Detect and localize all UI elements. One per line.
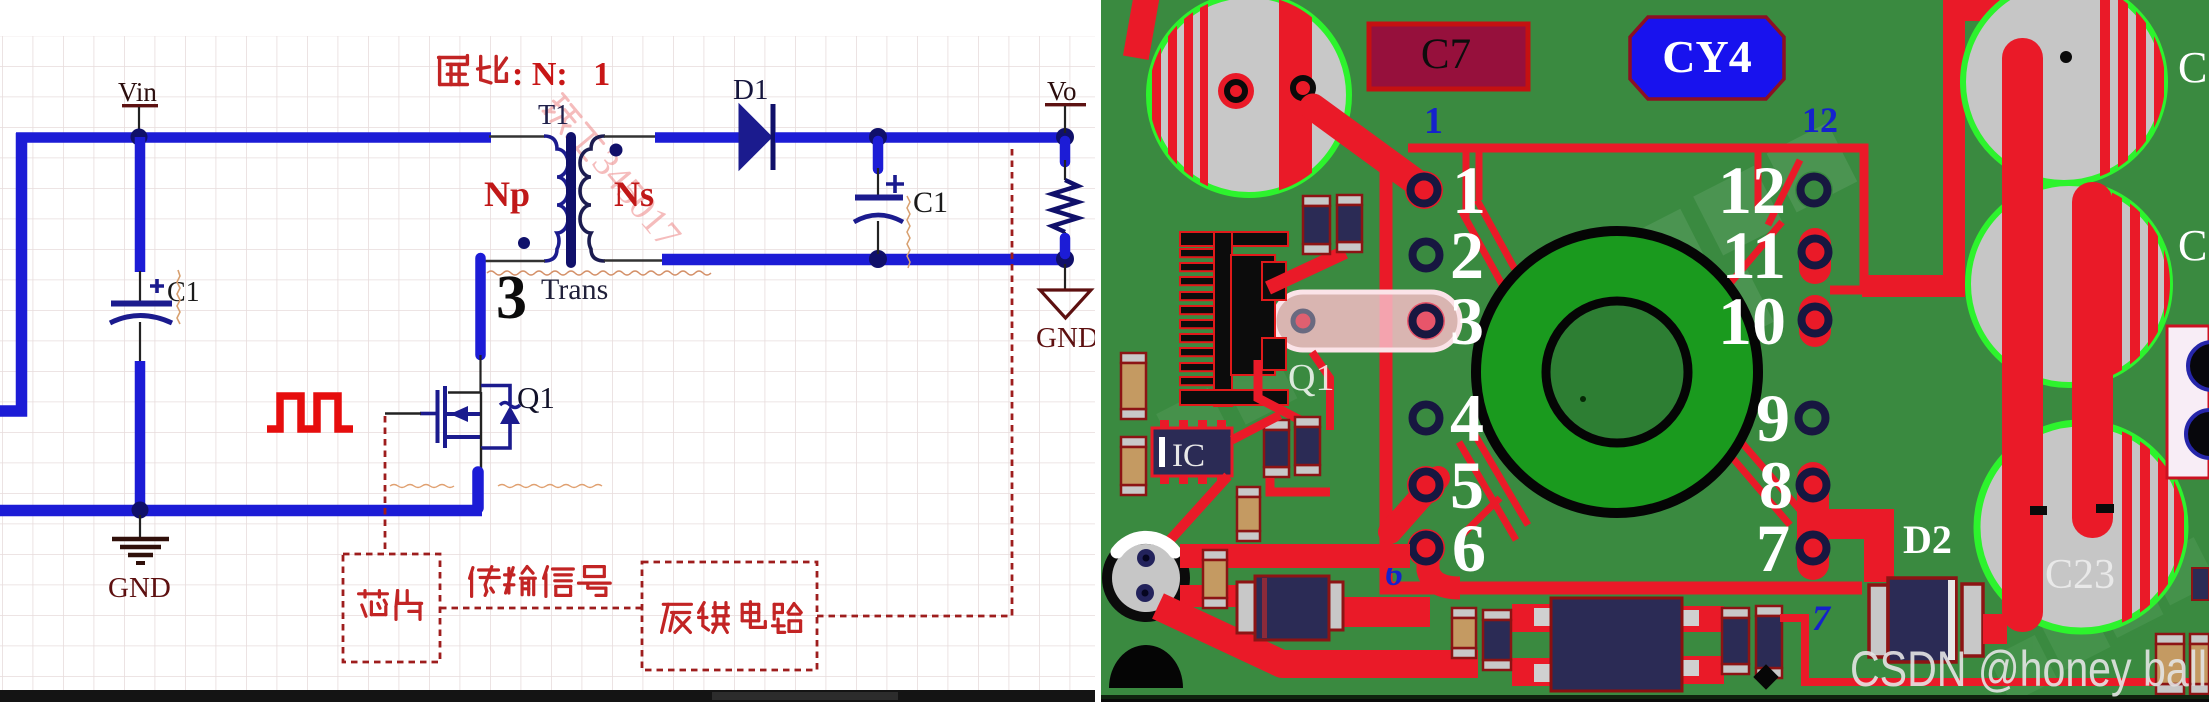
diode D1 xyxy=(733,74,773,170)
pad xyxy=(1293,78,1313,98)
component bottom-centre xyxy=(1512,598,1724,691)
net label Vo xyxy=(1045,76,1086,133)
trace L to top edge xyxy=(1862,10,2086,286)
node output cap bottom xyxy=(869,250,887,268)
pad pin5 xyxy=(1407,466,1445,504)
capacitor C1 input electrolytic xyxy=(110,270,200,362)
node output cap top xyxy=(869,128,887,146)
wire source to ground bus xyxy=(480,448,482,472)
pad pin3 xyxy=(1407,302,1445,340)
highlight pin3 xyxy=(1274,292,1460,350)
svg-text:Ns: Ns xyxy=(614,174,654,214)
box chip 芯片 xyxy=(343,554,440,662)
capacitor big right mid xyxy=(1968,183,2170,385)
net label Vin xyxy=(118,77,158,133)
label 传输信号 xyxy=(470,567,500,597)
PWM waveform symbol xyxy=(267,396,353,429)
svg-text:7: 7 xyxy=(1812,598,1832,638)
svg-text:IC: IC xyxy=(1172,438,1205,474)
bottom bar xyxy=(0,690,1101,702)
svg-text:C: C xyxy=(2178,221,2207,270)
svg-text:10: 10 xyxy=(1718,283,1786,359)
svg-text:1: 1 xyxy=(1424,100,1443,142)
heatsink xyxy=(1180,232,1288,406)
svg-text:T1: T1 xyxy=(538,100,569,131)
capacitor C1 output xyxy=(854,141,948,268)
wire secondary top lead xyxy=(604,135,658,137)
svg-text:Q1: Q1 xyxy=(517,380,555,415)
trace Q1 to caps xyxy=(1268,252,1345,288)
transformer toroid xyxy=(1476,231,1758,513)
trace top rail xyxy=(1408,148,1864,290)
transformer T1 core xyxy=(566,137,576,263)
trace electrolytic right xyxy=(1180,544,1410,568)
wire D1 to output node xyxy=(775,132,1066,143)
svg-text:CSDN @honey ball: CSDN @honey ball xyxy=(1850,641,2207,697)
svg-text:C1: C1 xyxy=(167,277,200,308)
wire primary to drain xyxy=(475,258,486,355)
polarity dot secondary xyxy=(610,144,623,157)
svg-text:2: 2 xyxy=(1450,217,1484,293)
label Trans xyxy=(487,271,711,306)
wire secondary bottom lead xyxy=(604,259,665,261)
pad xyxy=(1218,73,1254,109)
transformer T1 secondary winding Ns xyxy=(580,136,605,261)
label C7 xyxy=(1369,24,1528,89)
wire top input bus xyxy=(16,132,491,143)
ground GND left xyxy=(108,515,171,604)
trace verticals xyxy=(1459,152,1800,540)
trace bar A xyxy=(2002,38,2043,632)
trace to pin 1 xyxy=(1313,107,1424,188)
watermark xyxy=(538,87,689,256)
svg-text:C: C xyxy=(2178,43,2207,92)
wire dashed chip to feedback xyxy=(440,607,642,610)
node GND right junction xyxy=(1056,250,1074,268)
wire primary top lead xyxy=(489,135,545,137)
capacitor smd cluster xyxy=(1452,608,1476,658)
svg-text:Vo: Vo xyxy=(1047,76,1077,106)
pad pin4 xyxy=(1407,399,1445,437)
connector right edge xyxy=(2167,326,2209,478)
resistor smd left2 xyxy=(1121,437,1146,495)
node ground junction xyxy=(132,502,149,519)
svg-text:D2: D2 xyxy=(1903,517,1952,562)
svg-text:4: 4 xyxy=(1450,380,1484,456)
wire primary bottom lead xyxy=(478,260,545,262)
svg-text:C7: C7 xyxy=(1421,31,1471,78)
capacitor smd mid pair xyxy=(1264,420,1289,477)
trace bottom thick xyxy=(1158,606,1478,664)
resistor load xyxy=(1052,141,1078,254)
transformer T1 primary winding Np xyxy=(544,136,568,261)
svg-text:3: 3 xyxy=(1450,283,1484,359)
IC U1 xyxy=(1152,420,1232,484)
ground GND right xyxy=(1036,264,1099,354)
pad pin11 xyxy=(1799,228,1831,284)
svg-text:D1: D1 xyxy=(733,74,768,106)
svg-text:Vin: Vin xyxy=(118,77,157,107)
wire ground bus xyxy=(0,505,482,517)
trace pin8 T xyxy=(1826,524,1879,582)
pad pin8 pin7 xyxy=(1797,462,1829,580)
resistor smd left1 xyxy=(1121,353,1146,419)
trace pin6 xyxy=(1428,542,1460,588)
box feedback 反馈电路 xyxy=(642,562,817,670)
pad pin6 xyxy=(1407,529,1445,567)
svg-text:GND: GND xyxy=(108,572,171,604)
pad pin1 xyxy=(1405,171,1443,209)
pad pin10 xyxy=(1799,295,1831,347)
label turns ratio 匝比: N: 1 xyxy=(439,56,611,93)
resistor smd mid xyxy=(1237,487,1260,541)
wire output return bus xyxy=(662,254,1066,266)
svg-text:GND: GND xyxy=(1036,322,1099,354)
svg-text:7: 7 xyxy=(1756,510,1790,586)
pad pin2 xyxy=(1407,236,1445,274)
trace bar B xyxy=(2072,182,2113,538)
label CY4 xyxy=(1630,17,1784,99)
capacitor C23 xyxy=(1977,423,2185,631)
trace IC down xyxy=(1232,415,1280,440)
transistor Q1 MOSFET xyxy=(385,386,520,449)
svg-text:Trans: Trans xyxy=(541,273,608,306)
svg-text:Np: Np xyxy=(484,174,530,214)
wire dashed feedback to output xyxy=(817,144,1012,616)
trace vertical long xyxy=(1386,152,1862,588)
capacitor electrolytic bottom-left xyxy=(1102,534,1190,622)
svg-text:9: 9 xyxy=(1756,380,1790,456)
wire C1 input bottom lead xyxy=(135,361,146,508)
polarity dot primary xyxy=(518,237,530,249)
svg-text:: N: 1: : N: 1 xyxy=(512,56,610,93)
node Vin junction xyxy=(131,129,148,146)
svg-text:CY4: CY4 xyxy=(1662,31,1751,82)
pad pin9 xyxy=(1793,399,1831,437)
svg-text:C1: C1 xyxy=(913,186,948,219)
decorative xyxy=(1539,123,1899,410)
capacitor smd pair top xyxy=(1303,196,1330,254)
svg-text:12: 12 xyxy=(1802,100,1838,140)
trace thin bottom right xyxy=(1780,618,2209,682)
wire C1 input top lead xyxy=(135,137,146,272)
black dome xyxy=(1109,645,1183,688)
resistor smd bottom-right pair xyxy=(2156,634,2184,694)
resistor smd low xyxy=(1203,550,1227,608)
svg-text:11: 11 xyxy=(1722,217,1786,293)
trace pin5 xyxy=(1390,478,1438,532)
trace top-left stub xyxy=(1123,0,1159,60)
wire dashed gate to chip box xyxy=(384,416,387,554)
diode bottom-left xyxy=(1237,576,1343,640)
node Vo xyxy=(1056,128,1074,146)
svg-text:Q1: Q1 xyxy=(1288,357,1334,399)
pad pin12 xyxy=(1795,171,1833,209)
svg-text:6: 6 xyxy=(1452,510,1486,586)
svg-text:C23: C23 xyxy=(2045,552,2115,598)
wire left input drop xyxy=(0,133,22,411)
